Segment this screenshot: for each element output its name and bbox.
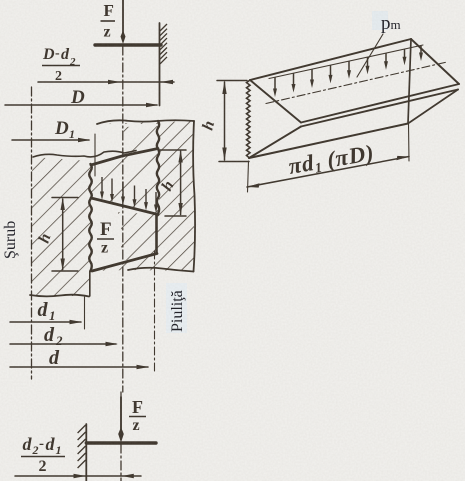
- d: [118, 427, 124, 443]
- top thick bar: [95, 43, 161, 46]
- hatch nut block: [92, 121, 194, 271]
- d dim: [10, 366, 148, 368]
- nut bottom edge wavy: [128, 268, 194, 272]
- screw block bottom wavy: [30, 295, 89, 297]
- force line dash-dot: [122, 46, 124, 392]
- (D-d2)/2 left: [146, 103, 159, 107]
- line2 flank: [91, 198, 158, 215]
- hatch nut tooth band: [91, 149, 158, 215]
- prism pressure arrows: [273, 46, 423, 97]
- d1 dim: [10, 321, 81, 323]
- h dim prism: [217, 80, 247, 82]
- right h dim: [159, 149, 186, 151]
- fraction bars: [21, 21, 146, 457]
- d1: [106, 342, 119, 346]
- h left up: [61, 259, 65, 272]
- arrowheads: [61, 31, 183, 479]
- h right up: [178, 203, 182, 216]
- right end hyp C-D: [411, 39, 459, 84]
- top F/z down: [108, 80, 121, 84]
- bottom right-point: [121, 474, 134, 478]
- nut top edge wavy: [97, 120, 194, 124]
- top F/z force arrow: [122, 0, 124, 33]
- dim D1 line: [12, 139, 89, 141]
- right end bottom F-E: [408, 90, 458, 124]
- hatch screw core block: [32, 157, 91, 296]
- hatch sliver above line1: [122, 126, 158, 154]
- hatch screw tooth band right part: [118, 212, 158, 262]
- pi d1 dim: [248, 161, 249, 192]
- white cutout behind F/z mid: [95, 214, 121, 258]
- (D-d2)/2 right: [161, 80, 174, 84]
- D1 right: [61, 198, 65, 211]
- top back edge A-C: [250, 39, 411, 80]
- left end bottom B-T2: [249, 127, 301, 159]
- h left down: [178, 150, 182, 163]
- screw break line wavy: [33, 151, 136, 158]
- prism dim arrowheads: [222, 81, 409, 188]
- line1 tooth top edge: [91, 149, 158, 166]
- bottom F/z down: [74, 474, 87, 478]
- d2 dim: [10, 343, 116, 345]
- tooth tip face: [155, 215, 158, 254]
- right end root C-F: [408, 39, 411, 124]
- W2 wavy crest line: [157, 121, 159, 214]
- top wall: [159, 23, 161, 106]
- digital labels: [372, 11, 388, 30]
- arrow tails top line: [269, 45, 423, 79]
- dim (D-d2)/2 line: [38, 81, 174, 83]
- central pressure arrows: [100, 177, 158, 213]
- pm leader: [357, 34, 383, 77]
- long bottom edge B-F: [249, 124, 408, 159]
- axis dash-dot: [31, 87, 33, 379]
- nut right edge wavy: [193, 121, 195, 272]
- crest bottom T2-E: [301, 90, 458, 127]
- d2: [137, 365, 150, 369]
- line3 bottom edge: [92, 254, 157, 272]
- h right down: [70, 320, 83, 324]
- bottom assembly: [85, 424, 87, 481]
- crest top T-D: [301, 84, 459, 123]
- zigzag left edge: [247, 80, 251, 158]
- W1 wavy root line: [89, 164, 92, 271]
- D right: [78, 138, 91, 142]
- left end top A-T: [250, 80, 301, 123]
- dim D line: [5, 104, 157, 106]
- d extension: [154, 251, 156, 374]
- wall hatch ticks top: [160, 24, 167, 64]
- dash-dot tips line: [266, 62, 447, 104]
- D1 extension: [94, 134, 96, 176]
- wall hatch ticks bottom: [78, 425, 86, 468]
- left h dim: [52, 197, 78, 199]
